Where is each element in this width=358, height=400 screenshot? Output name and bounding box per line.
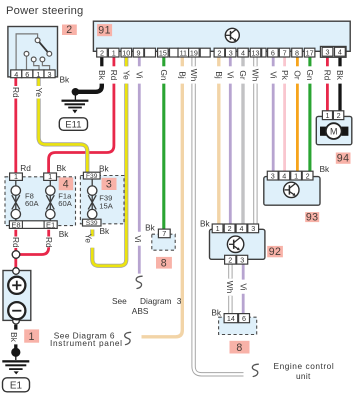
svg-text:1: 1 [326, 111, 330, 120]
svg-text:F39: F39 [86, 173, 98, 180]
svg-text:Bk: Bk [320, 164, 331, 174]
svg-text:1: 1 [48, 172, 52, 181]
svg-text:unit: unit [296, 371, 311, 381]
svg-text:3: 3 [271, 171, 275, 180]
svg-text:14: 14 [227, 314, 235, 323]
svg-text:15: 15 [159, 48, 167, 57]
svg-text:Diagram: Diagram [140, 296, 171, 306]
svg-text:1: 1 [294, 171, 298, 180]
svg-text:Ye: Ye [84, 234, 94, 244]
svg-text:Ye: Ye [122, 70, 132, 80]
svg-text:Gn: Gn [305, 69, 315, 80]
svg-text:Gr: Gr [238, 70, 248, 79]
svg-text:Bk: Bk [211, 308, 222, 318]
svg-text:11: 11 [180, 48, 187, 57]
svg-text:Vi: Vi [226, 71, 236, 78]
svg-text:Bk: Bk [60, 75, 71, 85]
svg-text:Bk: Bk [100, 226, 111, 236]
svg-text:3: 3 [177, 296, 182, 306]
svg-text:Wh: Wh [189, 69, 199, 82]
svg-text:Bk: Bk [97, 70, 107, 81]
svg-text:M: M [330, 127, 338, 137]
svg-text:3: 3 [251, 224, 255, 233]
svg-text:4: 4 [282, 171, 286, 180]
svg-text:93: 93 [306, 211, 319, 223]
svg-text:Wh: Wh [225, 281, 235, 294]
svg-text:2: 2 [306, 171, 310, 180]
svg-text:E8: E8 [11, 220, 20, 229]
svg-text:ABS: ABS [132, 306, 149, 316]
svg-text:Rd: Rd [44, 237, 54, 248]
svg-text:E1: E1 [46, 220, 55, 229]
svg-text:91: 91 [98, 25, 111, 37]
svg-text:Rd: Rd [109, 70, 119, 81]
svg-text:4: 4 [14, 70, 18, 79]
svg-text:9: 9 [137, 48, 141, 57]
svg-text:Rd: Rd [323, 70, 333, 81]
svg-text:Bj: Bj [214, 71, 224, 79]
svg-text:Bk: Bk [56, 163, 67, 173]
svg-text:4: 4 [338, 48, 342, 57]
svg-text:1: 1 [14, 172, 18, 181]
svg-text:Bk: Bk [200, 219, 211, 229]
svg-text:Rd: Rd [11, 87, 21, 98]
svg-text:4: 4 [63, 179, 69, 191]
svg-text:Instrument panel: Instrument panel [50, 338, 123, 348]
svg-text:6: 6 [25, 70, 29, 79]
svg-text:2: 2 [228, 255, 232, 264]
svg-text:6: 6 [242, 314, 246, 323]
svg-text:2: 2 [337, 111, 341, 120]
svg-text:10: 10 [122, 48, 130, 57]
svg-text:Power steering: Power steering [6, 5, 83, 17]
svg-text:Ye: Ye [34, 88, 44, 98]
svg-text:3: 3 [48, 70, 52, 79]
svg-text:2: 2 [228, 224, 232, 233]
svg-text:3: 3 [106, 179, 112, 191]
svg-text:92: 92 [269, 246, 282, 258]
svg-text:1: 1 [28, 331, 34, 343]
svg-text:8: 8 [295, 48, 299, 57]
svg-text:Bk: Bk [99, 163, 110, 173]
svg-text:Engine control: Engine control [274, 361, 335, 371]
svg-text:Bk: Bk [335, 70, 345, 81]
svg-text:2: 2 [217, 48, 221, 57]
svg-text:S39: S39 [86, 220, 98, 227]
svg-text:Or: Or [293, 70, 303, 79]
svg-text:Vi: Vi [135, 71, 145, 78]
svg-text:7: 7 [162, 229, 166, 238]
svg-text:Bk: Bk [59, 229, 70, 239]
svg-text:See: See [112, 296, 127, 306]
svg-text:Pk: Pk [280, 70, 290, 81]
svg-text:Vi: Vi [133, 235, 143, 242]
svg-text:Gn: Gn [159, 69, 169, 80]
svg-text:Vi: Vi [268, 71, 278, 78]
svg-text:E11: E11 [65, 119, 81, 130]
svg-text:8: 8 [161, 257, 167, 269]
svg-text:Rd: Rd [11, 237, 21, 248]
svg-text:15A: 15A [99, 201, 113, 210]
svg-text:Bj: Bj [178, 71, 188, 79]
svg-text:1: 1 [36, 70, 40, 79]
svg-text:60A: 60A [58, 199, 72, 208]
svg-text:8: 8 [236, 342, 242, 354]
svg-text:19: 19 [190, 48, 198, 57]
svg-text:Bk: Bk [145, 222, 156, 232]
svg-text:4: 4 [241, 48, 245, 57]
svg-text:3: 3 [326, 48, 330, 57]
svg-text:6: 6 [271, 48, 275, 57]
svg-text:Wh: Wh [251, 69, 261, 82]
svg-text:1: 1 [112, 48, 116, 57]
svg-text:13: 13 [252, 48, 260, 57]
svg-text:3: 3 [229, 48, 233, 57]
svg-text:2: 2 [100, 48, 104, 57]
svg-text:2: 2 [66, 24, 72, 36]
svg-text:3: 3 [240, 255, 244, 264]
svg-text:4: 4 [240, 224, 244, 233]
svg-text:Bk: Bk [9, 332, 19, 343]
svg-text:1: 1 [216, 224, 220, 233]
svg-text:E1: E1 [10, 380, 23, 391]
svg-text:Vi: Vi [238, 283, 248, 290]
svg-text:94: 94 [337, 153, 350, 165]
svg-text:7: 7 [283, 48, 287, 57]
svg-text:60A: 60A [25, 199, 39, 208]
svg-text:17: 17 [306, 48, 314, 57]
svg-text:Rd: Rd [20, 163, 31, 173]
